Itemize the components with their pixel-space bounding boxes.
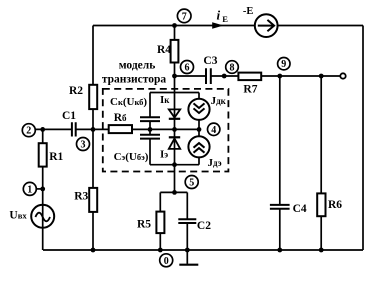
capacitor C1 xyxy=(72,122,76,136)
svg-text:Jдк: Jдк xyxy=(211,95,227,107)
svg-text:R6: R6 xyxy=(328,199,342,211)
dashed box model boundary xyxy=(103,89,229,172)
current arrow iE xyxy=(212,22,223,28)
svg-text:0: 0 xyxy=(164,256,169,267)
wire right rail xyxy=(362,26,364,251)
junction node9 xyxy=(277,74,282,79)
node 6 xyxy=(181,61,194,74)
resistor R7 xyxy=(238,73,261,81)
wire left vertical through R2 R3 xyxy=(92,26,94,251)
wire R6 branch xyxy=(320,76,322,250)
svg-text:8: 8 xyxy=(230,63,235,74)
wire C2 branch upper xyxy=(186,192,188,219)
wire Ce bottom stem xyxy=(149,139,151,165)
svg-text:E: E xyxy=(222,14,228,24)
junction node1 xyxy=(40,187,45,192)
junction R6 top xyxy=(319,74,324,79)
junction node4 xyxy=(197,127,202,132)
svg-text:7: 7 xyxy=(182,12,187,23)
junction base caps xyxy=(148,127,153,132)
node 8 xyxy=(226,61,239,74)
node 3 xyxy=(77,138,90,151)
wire R4 diode column xyxy=(174,26,176,165)
junction node6 xyxy=(172,74,177,79)
node 0 xyxy=(160,254,173,267)
source -E xyxy=(255,14,278,37)
ground xyxy=(179,264,198,266)
wire R5 C2 bus xyxy=(160,191,187,193)
current source Jde xyxy=(188,136,209,157)
junction R5 bottom xyxy=(158,248,163,253)
resistor R6 xyxy=(317,193,325,216)
svg-text:-E: -E xyxy=(243,6,254,17)
wire Jde bottom stub xyxy=(198,157,200,164)
wire Jdk to Jde xyxy=(198,120,200,136)
svg-text:R4: R4 xyxy=(157,44,171,56)
wire source branch through R1 Uvx xyxy=(42,129,44,250)
svg-text:9: 9 xyxy=(281,59,286,70)
junction node3 xyxy=(91,127,96,132)
wire C3 to open terminal xyxy=(211,75,341,77)
svg-text:C4: C4 xyxy=(293,203,307,215)
junction ground xyxy=(185,248,190,253)
svg-text:R1: R1 xyxy=(49,151,63,163)
junction node7 top xyxy=(172,23,177,28)
junction node8 xyxy=(222,74,227,79)
junction R6 bottom xyxy=(319,248,324,253)
resistor R1 xyxy=(39,143,47,166)
junction node5 xyxy=(172,162,177,167)
svg-text:Rб: Rб xyxy=(114,112,127,124)
wire node2 to C1 xyxy=(31,128,72,130)
svg-text:транзистора: транзистора xyxy=(102,73,167,85)
wire base line Rb to node4 xyxy=(132,128,199,130)
junction node2 xyxy=(40,127,45,132)
junction R5 C2 split xyxy=(172,190,177,195)
junction base diodes xyxy=(172,127,177,132)
node 9 xyxy=(278,58,290,71)
node 2 xyxy=(22,124,35,137)
diode Ik xyxy=(169,109,180,118)
wire Ck-Ce middle stem xyxy=(149,121,151,135)
svg-text:R2: R2 xyxy=(69,85,83,97)
svg-text:4: 4 xyxy=(211,125,216,136)
capacitor C3 xyxy=(206,68,211,84)
svg-text:R3: R3 xyxy=(74,191,88,203)
wire ground stem xyxy=(186,250,188,264)
svg-text:R5: R5 xyxy=(137,219,151,231)
source Uvx xyxy=(31,205,54,228)
capacitor Ce(Ube) xyxy=(140,135,160,139)
wire inner top bus xyxy=(150,92,199,94)
svg-text:Iк: Iк xyxy=(160,94,170,106)
wire bottom rail node0 xyxy=(43,249,363,251)
wire Jdk top stub xyxy=(198,93,200,101)
resistor R2 xyxy=(89,85,97,109)
node 1 xyxy=(23,182,36,195)
resistor R5 xyxy=(156,212,164,234)
capacitor C4 xyxy=(270,205,290,209)
wire C4 branch lower xyxy=(279,209,281,250)
resistor R3 xyxy=(89,188,97,212)
wire top rail node7 xyxy=(93,25,363,27)
svg-text:Сэ(Uбэ): Сэ(Uбэ) xyxy=(114,151,149,163)
svg-text:3: 3 xyxy=(81,140,86,151)
svg-text:модель: модель xyxy=(119,60,156,72)
svg-text:1: 1 xyxy=(27,184,32,195)
junction C4 bottom xyxy=(277,248,282,253)
wire C2 branch lower xyxy=(186,223,188,250)
wire Ck top stem xyxy=(149,93,151,118)
resistor Rb xyxy=(109,125,132,133)
wire node5 bus xyxy=(150,164,199,166)
node 4 xyxy=(208,123,220,136)
svg-text:C2: C2 xyxy=(197,220,211,232)
wire C1 to Rb base line xyxy=(76,128,109,130)
svg-text:6: 6 xyxy=(185,63,190,74)
svg-text:i: i xyxy=(217,8,221,23)
wire node6 to C3 xyxy=(175,75,207,77)
wire C4 branch upper xyxy=(279,76,281,205)
wire R5 branch xyxy=(159,192,161,250)
svg-text:Uвх: Uвх xyxy=(9,210,27,222)
current source Jdk xyxy=(188,99,209,120)
svg-text:R7: R7 xyxy=(243,83,257,95)
svg-text:Iэ: Iэ xyxy=(160,149,168,161)
svg-text:5: 5 xyxy=(189,178,194,189)
capacitor Ck(Ukb) xyxy=(140,117,160,121)
wire node1 stub xyxy=(32,188,43,190)
svg-text:C1: C1 xyxy=(62,110,76,122)
svg-text:C3: C3 xyxy=(203,55,217,67)
resistor R4 xyxy=(171,40,179,63)
node 7 xyxy=(177,9,191,23)
svg-text:Ск(Uкб): Ск(Uкб) xyxy=(110,96,147,108)
svg-text:2: 2 xyxy=(26,126,31,137)
junction R3 bottom xyxy=(91,248,96,253)
wire node5 down xyxy=(174,165,176,193)
node 5 xyxy=(185,176,198,189)
capacitor C2 xyxy=(178,219,196,223)
open terminal xyxy=(340,73,345,78)
svg-text:Jдэ: Jдэ xyxy=(208,157,222,169)
diode Ie xyxy=(169,137,180,149)
